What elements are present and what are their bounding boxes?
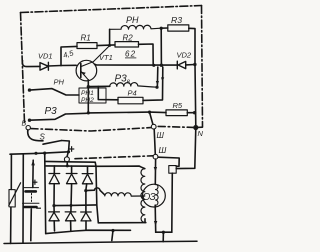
wire plus terminal stub (66, 162, 68, 166)
resistor P4 (118, 97, 143, 104)
contact PH (30, 89, 80, 95)
relay coil P3 (110, 83, 157, 88)
resistor R5 (166, 110, 187, 116)
wire phase 3 (86, 184, 105, 195)
node PH contact left (28, 88, 31, 91)
resistor R1 (77, 43, 97, 49)
svg-text:РН2: РН2 (81, 97, 94, 104)
svg-text:4,5: 4,5 (62, 48, 75, 60)
node plus rail center (66, 164, 69, 167)
wire mid column (22, 154, 24, 243)
diode VD2 (177, 61, 185, 69)
diode bridge bottom 2 (65, 212, 76, 221)
diode bridge bottom 1 (49, 212, 60, 221)
label plus battery (32, 180, 37, 185)
wire R5 left (150, 111, 167, 114)
rotor winding circle OZ (143, 184, 166, 207)
wire battery lower (30, 209, 33, 241)
wire VD2 cathode to node (186, 64, 195, 66)
frame regulator left edge (21, 13, 25, 124)
wire emitter to Sh (88, 111, 149, 114)
terminal plus rectifier (64, 157, 69, 162)
svg-text:Ш: Ш (157, 131, 165, 140)
wire phase 1 (54, 184, 97, 206)
switch S arm (43, 141, 62, 145)
wire P4 bracket (98, 86, 118, 99)
node VD2-R3 junction (193, 63, 196, 66)
fuse diagonal (9, 183, 21, 206)
wire R1 to R2 (97, 44, 115, 47)
svg-text:R5: R5 (173, 101, 183, 110)
resistor R2 (115, 42, 139, 47)
fuse box (9, 190, 15, 208)
wire PH-R3 junction down to rail (160, 28, 162, 65)
svg-text:R2: R2 (123, 34, 134, 43)
diode bridge top 1 (53, 166, 55, 174)
node R5 junction (193, 111, 196, 114)
wire battery drop with arrow (32, 160, 34, 187)
diode VD1 (40, 62, 48, 70)
wire rotor bottom to ground (162, 232, 164, 241)
wire node to R1 (vertical 4,5) (61, 46, 77, 65)
diode bridge top 3 (87, 166, 89, 173)
svg-text:Р3: Р3 (45, 106, 58, 117)
node R1-R2 junction (108, 44, 111, 47)
wire M riser (194, 65, 197, 128)
wire VD1 anode hook (22, 61, 40, 67)
label minus battery (36, 207, 41, 209)
battery dotted link (31, 193, 33, 201)
wire Sh riser (150, 112, 153, 124)
wire M stub to frame (196, 126, 203, 128)
wire fuse column lower (10, 207, 12, 243)
node P3 riser junction (160, 63, 163, 66)
stator coil bottom join (144, 219, 146, 223)
wire P3 coil from emitter (88, 85, 110, 87)
svg-text:VT1: VT1 (99, 53, 113, 62)
frame regulator right edge (202, 6, 203, 127)
node phase 3 (84, 189, 87, 192)
wire phase 3 upper stub (85, 191, 87, 212)
frame regulator bottom-right edge (158, 126, 193, 127)
svg-text:Р3в: Р3в (115, 74, 130, 86)
wire P4 right riser (143, 67, 163, 100)
wire R3 right drop (189, 28, 195, 64)
bridge minus rail (46, 230, 131, 233)
bridge plus rail (46, 165, 96, 167)
svg-text:N: N (198, 129, 204, 138)
svg-text:VD1: VD1 (38, 52, 53, 61)
arrow on Sh wire lower (154, 221, 157, 226)
diode bridge bottom 3 (81, 212, 92, 221)
wire plus node to rectifier (67, 152, 68, 157)
battery cell1 long plate (23, 187, 39, 189)
diode bridge top 2 (71, 166, 73, 174)
wire brush holder from Sh gen (158, 157, 179, 166)
wire R2 right drop to rail (139, 44, 154, 65)
node battery tap (34, 152, 37, 155)
node emitter-coil junction (87, 85, 90, 88)
wire R5 right (187, 112, 194, 114)
rotor winding wavy line (155, 184, 158, 205)
node PH-R3 junction (160, 27, 163, 30)
bridge top outer line (45, 161, 96, 166)
resistor R3 (168, 25, 189, 31)
svg-text:R3: R3 (171, 15, 182, 25)
node Sh riser junction (148, 111, 151, 114)
arrow on riser (161, 77, 164, 82)
bridge outer left (45, 153, 46, 234)
contact box PH1 PH2 (79, 88, 106, 103)
wire Sh vertical upper (154, 129, 155, 154)
stator middle coil (105, 193, 145, 196)
node coil right junction (155, 86, 158, 89)
stator bottom line (98, 222, 146, 224)
wire PH coil riser (109, 29, 111, 45)
svg-text:R1: R1 (81, 34, 91, 43)
battery cell2 short plate (25, 206, 37, 209)
wire phase 1 lower stub (53, 206, 55, 212)
terminal Sh (151, 124, 156, 129)
svg-text:Р4: Р4 (128, 89, 137, 98)
arrow stroke to coil junction (156, 67, 158, 86)
node phase 1 cross (70, 204, 73, 207)
wire coil to R3 (161, 27, 168, 29)
transistor VT1 emitter with arrow (81, 72, 88, 80)
wire below rotor (154, 205, 157, 232)
bridge left vertical to stator (96, 166, 98, 223)
battery cell2 long plate (23, 202, 40, 204)
node bridge rail tap (43, 152, 46, 155)
frame regulator top edge (21, 6, 202, 13)
transistor VT1 collector (81, 46, 110, 67)
node rotor bottom (162, 231, 165, 234)
svg-text:РН: РН (54, 78, 65, 87)
wire collector rail to VD2 (95, 63, 178, 66)
wire V to S (28, 130, 43, 141)
generator box top edge (75, 156, 153, 159)
transistor VT1 base bar (80, 64, 82, 78)
wire battery rail (10, 152, 69, 154)
wire M to brush (176, 128, 196, 169)
contact P3 (30, 113, 87, 120)
terminal Sh generator (153, 154, 158, 159)
wire rotor bottom bracket (156, 231, 172, 233)
stator vertical coil (141, 169, 145, 223)
arrow on Sh wire upper (154, 167, 157, 172)
wire VD1 cathode to node (48, 65, 61, 68)
node emitter bottom junction (87, 111, 90, 114)
node M terminal (193, 125, 198, 130)
wire S to plus node (62, 141, 70, 152)
stator top line (96, 166, 145, 169)
svg-text:РН: РН (126, 15, 139, 25)
ground rail (4, 241, 197, 243)
svg-text:В: В (22, 121, 27, 128)
svg-text:ОЗ: ОЗ (143, 192, 156, 203)
wire emitter down (87, 80, 89, 113)
node plus junction (67, 150, 70, 153)
battery cell1 short plate (26, 190, 36, 193)
frame regulator bottom-left edge (31, 128, 151, 131)
svg-text:VD2: VD2 (177, 51, 192, 60)
wire brush down (171, 173, 174, 232)
terminal V (26, 126, 30, 130)
wire fuse column upper (10, 154, 12, 189)
svg-text:Ш: Ш (159, 145, 167, 155)
label plus node (69, 146, 74, 152)
relay coil PH (110, 25, 161, 29)
svg-text:S: S (40, 133, 46, 142)
wire VT1 base (61, 64, 76, 66)
wire minus to ground (112, 231, 113, 241)
node phase 1 (52, 204, 55, 207)
svg-text:62: 62 (125, 50, 136, 59)
node B2 drop junction (152, 64, 155, 67)
node minus rail (111, 229, 114, 232)
wire Sh into generator (154, 159, 156, 184)
brush box (169, 166, 176, 174)
wire phase 2 column (70, 184, 73, 212)
transistor VT1 (76, 60, 97, 81)
node P3 contact left (28, 119, 31, 122)
